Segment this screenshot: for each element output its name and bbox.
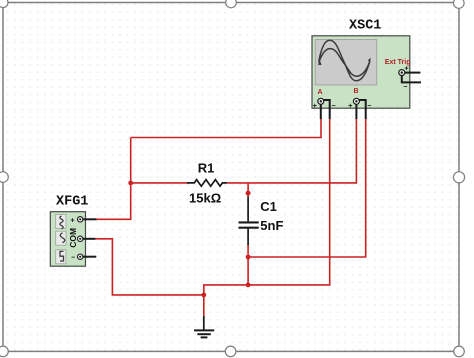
svg-text:5nF: 5nF [260, 218, 283, 233]
oscilloscope XSC1 body [312, 36, 410, 108]
wire: XFG1 COM to ground node [95, 239, 203, 295]
svg-text:+: + [313, 103, 317, 110]
junction node at COM / ground stem [201, 293, 206, 298]
XFG1 terminal - [78, 254, 97, 259]
XSC1 Ext Trig terminal [399, 70, 421, 83]
XFG1 terminal COM [78, 236, 96, 241]
XFG1 triangle waveform button [56, 231, 66, 245]
XFG1 terminal + [78, 217, 97, 222]
junction node at C1 bottom rail [246, 255, 251, 260]
wire: scope B negative hook down to C1 bottom rail [248, 119, 366, 257]
R1 reference label [198, 161, 215, 176]
XSC1 channel A terminal [318, 98, 330, 119]
svg-text:−: − [367, 103, 371, 110]
wire: R1 right rail to scope channel B [227, 119, 357, 183]
capacitor C1 [239, 197, 259, 246]
svg-text:+: + [348, 103, 352, 110]
wire: ground rail left segment to ground stem [204, 285, 248, 319]
wire: C1 bottom lead to rails [247, 244, 249, 285]
svg-text:−: − [332, 103, 336, 110]
junction node at C1 top [246, 191, 251, 196]
junction node at ground rail / C1 branch [246, 283, 251, 288]
R1 value label 15kΩ [189, 191, 221, 206]
XSC1 screen waveform trace 2 [319, 49, 370, 77]
XSC1 channel B pin label [354, 88, 359, 95]
svg-text:−: − [71, 255, 75, 262]
XSC1 reference label [349, 19, 381, 34]
XSC1 Ext Trig pin label [385, 59, 411, 66]
C1 value label 5nF [260, 218, 283, 233]
XSC1 screen [315, 40, 377, 85]
XSC1 Ext Trig polarity signs [403, 66, 408, 92]
svg-text:15kΩ: 15kΩ [189, 191, 221, 206]
wire: top rail from left node to scope channel A [131, 119, 321, 138]
XFG1 minus pin sign [71, 255, 75, 262]
svg-text:+: + [405, 66, 409, 73]
svg-text:COM: COM [68, 228, 78, 248]
XFG1 plus pin sign [71, 218, 75, 225]
XSC1 channel B terminal [353, 98, 365, 119]
ground [194, 316, 214, 337]
XFG1 sine waveform button [56, 214, 66, 228]
wire: XFG1 + output to left node (red) [97, 138, 131, 220]
svg-text:+: + [71, 218, 75, 225]
function generator XFG1 body [50, 212, 85, 267]
wire: R1 left lead rail [131, 182, 188, 184]
XSC1 channel B polarity signs [348, 103, 371, 110]
XSC1 channel A polarity signs [313, 103, 336, 110]
C1 reference label [260, 199, 277, 214]
svg-text:C1: C1 [260, 199, 277, 214]
XFG1 COM pin label (vertical) [68, 228, 78, 248]
XFG1 reference label [56, 194, 88, 209]
svg-text:XFG1: XFG1 [56, 194, 88, 209]
XSC1 screen waveform trace 1 [318, 40, 371, 81]
wire: scope A negative hook down to ground rail [248, 119, 330, 285]
resistor R1 [187, 180, 227, 187]
svg-text:A: A [318, 89, 323, 96]
svg-text:XSC1: XSC1 [349, 19, 381, 34]
svg-text:−: − [403, 84, 407, 91]
wire: C1 top branch [247, 183, 249, 197]
XFG1 square waveform button [56, 250, 66, 264]
XSC1 channel A pin label [318, 89, 323, 96]
junction node at R1 left / XFG+ [128, 181, 133, 186]
svg-text:B: B [354, 88, 359, 95]
svg-text:R1: R1 [198, 161, 215, 176]
